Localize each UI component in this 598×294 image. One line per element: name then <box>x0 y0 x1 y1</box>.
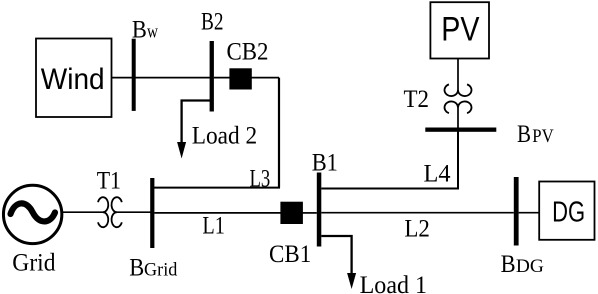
wire PV to T2 <box>457 59 459 91</box>
wire CB1 to B1 <box>302 212 317 214</box>
line L2 <box>321 212 514 214</box>
circuit breaker CB2 <box>229 68 251 89</box>
Load 1 tap wire <box>321 236 351 276</box>
line L1 <box>154 212 281 214</box>
Load 2 tap wire <box>182 101 211 147</box>
svg-text:T2: T2 <box>404 86 430 113</box>
svg-text:DG: DG <box>552 196 585 228</box>
wire T2 to BPV <box>457 107 459 128</box>
Load 2 arrowhead <box>177 142 186 159</box>
wire T1 to BGrid <box>117 211 152 213</box>
svg-text:Grid: Grid <box>12 249 56 276</box>
svg-text:DG: DG <box>516 257 544 277</box>
svg-text:CB1: CB1 <box>269 241 311 268</box>
wire Grid to T1 <box>62 211 103 213</box>
wire BPV down to L4 <box>457 132 459 189</box>
svg-text:B1: B1 <box>312 150 338 177</box>
transformer T2 <box>445 84 472 113</box>
svg-text:B2: B2 <box>201 9 224 36</box>
PV source box <box>430 2 489 58</box>
svg-text:Load 2: Load 2 <box>192 122 258 149</box>
svg-text:B: B <box>132 17 147 44</box>
svg-text:CB2: CB2 <box>227 39 269 66</box>
Wind source box <box>36 39 112 118</box>
svg-text:L2: L2 <box>404 216 430 243</box>
Load 1 arrowhead <box>347 273 356 289</box>
Grid sine wave <box>11 203 56 221</box>
wire B2 to CB2 to corner <box>214 77 279 79</box>
bus Bw <box>132 39 136 111</box>
svg-text:L3: L3 <box>250 166 271 193</box>
svg-text:PV: PV <box>532 127 554 147</box>
transformer T1 <box>98 197 122 227</box>
wire Wind to B2 <box>112 77 210 79</box>
svg-text:Load 1: Load 1 <box>360 272 428 294</box>
svg-text:L1: L1 <box>202 212 225 239</box>
wire L3 riser <box>278 78 280 188</box>
bus BDG <box>514 177 519 246</box>
bus B2 <box>210 41 214 112</box>
wire BDG to DG box <box>519 212 540 214</box>
svg-text:B: B <box>129 255 144 282</box>
bus BPV <box>425 128 496 132</box>
DG source box <box>539 182 594 240</box>
bus B1 <box>317 173 322 247</box>
svg-text:Grid: Grid <box>144 261 178 281</box>
line L4 horizontal and riser <box>321 131 458 189</box>
bus BGrid <box>150 178 154 248</box>
svg-text:PV: PV <box>441 11 479 49</box>
svg-text:Wind: Wind <box>41 63 105 96</box>
Grid source circle <box>3 185 61 243</box>
svg-text:w: w <box>147 23 159 43</box>
line L3 horizontal <box>152 187 280 189</box>
svg-text:L4: L4 <box>424 161 451 188</box>
circuit breaker CB1 <box>280 202 303 224</box>
svg-text:T1: T1 <box>97 167 121 194</box>
svg-text:B: B <box>501 251 516 278</box>
svg-text:B: B <box>517 121 531 148</box>
